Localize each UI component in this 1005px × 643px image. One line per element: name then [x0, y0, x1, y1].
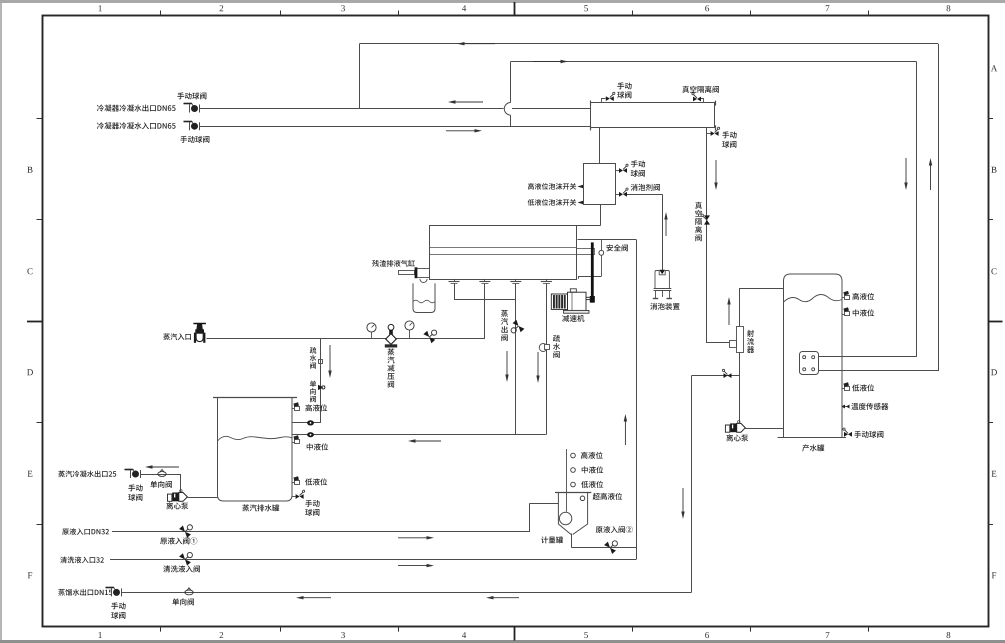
- agitator bearing housing: [577, 249, 595, 255]
- frame column ticks bottom: [160, 627, 162, 632]
- label steam inlet: [163, 333, 191, 340]
- pipe: steam condensate riser x320: [320, 339, 322, 423]
- label manual ball valve outlet: [177, 92, 206, 99]
- check valve on riser x320: [318, 385, 323, 390]
- gearbox motor assembly: [551, 294, 567, 309]
- vessel drain boss: [420, 279, 427, 283]
- flow arrow leg3 down: [506, 351, 508, 375]
- manual ball valve on inlet line: [189, 122, 191, 130]
- pipe: riser to ejector nozzle: [707, 342, 730, 344]
- residue beaker: [413, 283, 435, 312]
- flow arrow distilled left 1: [304, 597, 332, 599]
- label metering tank: [541, 536, 563, 543]
- label check valve condensate: [150, 481, 172, 488]
- flow arrow riser x320 down: [329, 345, 331, 371]
- residue drain cylinder label: [372, 260, 415, 267]
- pipe: raw liquid line: [112, 531, 530, 533]
- pipe: loop2 right riser: [916, 62, 918, 357]
- defoam box riser from condenser: [599, 128, 601, 163]
- defoam box: [584, 164, 616, 205]
- steam trap on leg4: [539, 344, 547, 352]
- pipe: leg3 riser down: [515, 283, 517, 434]
- residue beaker liquid wavy line: [413, 300, 435, 303]
- pipe: mid level long line to legs: [292, 434, 546, 436]
- flow arrow riser x691 down: [682, 488, 684, 512]
- frame numbers bottom: [99, 632, 102, 638]
- metering tank lid: [555, 492, 591, 494]
- flow arrow riser x636 up: [624, 422, 626, 446]
- centrifugal pump left: [168, 494, 172, 501]
- metering overfill circle + label: [580, 496, 585, 501]
- frame letters left: [27, 167, 32, 173]
- frame numbers top: [99, 5, 102, 11]
- label product water tank: [802, 444, 824, 451]
- flow arrow leg4 down: [537, 352, 539, 376]
- label manual ball valve defoam box: [631, 160, 645, 167]
- label manual ball valve condensate (2 lines): [128, 484, 142, 491]
- pipe: ejector bottom to pump: [739, 352, 741, 423]
- label check valve distilled: [172, 598, 194, 605]
- manual ball valve defoam box: [616, 170, 620, 172]
- pipe: condensate inlet line DN65: [200, 126, 591, 128]
- flow arrow mid line left: [416, 440, 442, 442]
- label cleaning liquid inlet 32: [60, 556, 104, 563]
- flow arrow cleaning liquid right: [398, 565, 427, 567]
- pipe: loop1 left riser: [359, 44, 361, 109]
- flow arrow loop1 left: [465, 43, 496, 45]
- label check valve x320 (vertical): [310, 381, 316, 403]
- cleaning liquid inlet valve: [179, 549, 196, 566]
- valve after reducer: [423, 326, 440, 343]
- flow arrow vacuum riser down: [715, 160, 717, 183]
- label safety valve: [606, 244, 627, 251]
- product tank nozzle low level: [842, 388, 845, 390]
- ejector nozzle stub: [730, 341, 737, 348]
- condenser vessel: [591, 103, 715, 128]
- pressure gauge 2: [409, 330, 411, 339]
- pipe: loop1 right riser: [938, 44, 940, 371]
- manual ball valve distilled water: [111, 588, 113, 596]
- label mid level drain tank: [307, 443, 328, 450]
- drain tank nozzle low: [292, 482, 295, 484]
- raw liquid inlet valve 1: [179, 521, 196, 538]
- pipe: metering tank outlet: [571, 534, 573, 548]
- steam inlet globe valve: [193, 323, 206, 325]
- check valve oval distilled: [185, 590, 193, 595]
- pipe: leg4 riser down: [546, 283, 548, 434]
- pipe: trap outlet to drain tank upper: [292, 422, 320, 424]
- label distilled water outlet DN15: [58, 589, 112, 596]
- label high level drain tank: [305, 404, 327, 411]
- label steam trap x320 (vertical): [310, 347, 317, 369]
- pipe: raw liquid riser to metering tank: [529, 503, 531, 531]
- pipe: leg1 down and across: [454, 283, 456, 300]
- agitator shaft: [591, 242, 594, 302]
- pipe: distilled water line: [122, 592, 692, 594]
- evaporator internal jacket lines: [430, 247, 577, 249]
- product tank nozzle mid level: [842, 314, 845, 316]
- pipe: loop2 left riser with crossing hop: [510, 62, 512, 103]
- label defoamer agent valve: [631, 184, 660, 191]
- check valve oval condensate: [158, 472, 166, 477]
- product water tank: [784, 274, 843, 438]
- pipe: condensate outlet line: [141, 474, 180, 476]
- label low level product tank: [852, 384, 874, 391]
- metering tank body funnel: [558, 493, 587, 535]
- pipe: defoam agent line to defoamer device: [627, 194, 662, 196]
- manual ball valve on outlet line: [189, 105, 191, 113]
- check oval upper: [307, 420, 314, 425]
- pipe: vapor loop1 top line: [359, 43, 938, 45]
- temperature sensor probe: [842, 406, 849, 408]
- pipe: distilled water riser x691: [691, 376, 693, 593]
- pipe: condensate outlet line DN65: [200, 108, 504, 110]
- label centrifugal pump left: [166, 502, 188, 509]
- pressure gauge 1: [371, 332, 373, 339]
- safety valve: [601, 240, 603, 251]
- product tank nozzle high level: [842, 297, 845, 299]
- gearbox base plate: [564, 310, 590, 313]
- label gearbox: [562, 315, 584, 322]
- pipe: flange box to inner riser: [818, 356, 917, 358]
- label manual ball valve condenser top: [617, 82, 631, 89]
- ejector body: [737, 327, 744, 353]
- label manual ball valve right of condenser: [722, 131, 736, 138]
- residue drain cylinder: [399, 271, 415, 275]
- manual ball valve on condenser top: [602, 99, 606, 103]
- steam drain tank body: [218, 398, 293, 501]
- vacuum isolation valve on riser: [704, 215, 710, 220]
- label raw liquid inlet DN32: [62, 528, 109, 535]
- label manual ball valve drain tank: [305, 500, 319, 507]
- label steam drain tank: [242, 504, 279, 511]
- product tank liquid wavy line: [784, 295, 843, 303]
- sight glass flange box on product tank: [800, 352, 819, 375]
- drain tank nozzle high: [292, 408, 295, 410]
- label defoamer device: [650, 303, 679, 310]
- product tank base line: [778, 437, 846, 439]
- main riser x636 (feed/safety): [636, 240, 638, 560]
- drain tank nozzle mid: [292, 442, 295, 444]
- label low level foam switch: [528, 199, 577, 206]
- pipe: pump suction branch line: [692, 375, 740, 377]
- manual ball valve product tank drain: [844, 432, 848, 437]
- flow arrow defoamer feed up: [665, 220, 667, 237]
- defoamer agent valve: [616, 194, 620, 196]
- label steam trap leg4 (vertical): [553, 335, 560, 358]
- pipe: left pump to drain tank: [188, 497, 218, 499]
- manual ball valve below condenser: [707, 133, 711, 135]
- manual ball valve condensate outlet: [130, 470, 132, 478]
- pipe: leg2 down to steam line: [484, 283, 486, 339]
- evaporator vessel body: [430, 226, 577, 280]
- metering tank sensor dip tube: [566, 449, 568, 512]
- condenser flange ticks: [590, 101, 592, 106]
- pipe: flange box to outer riser: [818, 370, 938, 372]
- label mid level product tank: [853, 309, 874, 316]
- flow arrow outlet line left: [456, 101, 484, 103]
- steam drain tank lid: [213, 397, 297, 399]
- label vacuum isolation valve top: [682, 86, 719, 93]
- pipe: vapor loop2 top line: [511, 61, 917, 63]
- frame row ticks right: [988, 118, 993, 120]
- metering level circles + labels: [571, 453, 576, 458]
- label vapor outlet valve (vertical): [501, 310, 508, 341]
- pipe: vacuum riser from condenser: [706, 128, 708, 343]
- metering tank ball float: [559, 512, 571, 524]
- pipe: vessel top to defoam box riser: [577, 225, 601, 227]
- raw liquid inlet valve 2: [604, 537, 621, 554]
- label temperature sensor: [851, 403, 888, 410]
- pipe: down to pump left: [180, 474, 182, 493]
- defoamer device: [659, 270, 665, 274]
- label manual ball valve product tank: [854, 431, 883, 438]
- flow arrow raw liquid right: [398, 537, 427, 539]
- label condenser condensate inlet DN65: [97, 122, 176, 129]
- pipe: cleaning liquid line: [110, 559, 636, 561]
- centrifugal pump right: [725, 425, 729, 432]
- pipe: pump discharge to product tank: [745, 428, 783, 430]
- gearbox body: [568, 292, 587, 310]
- flow arrow ejector motive up: [728, 305, 730, 326]
- flow arrow condensate left: [153, 466, 180, 468]
- pipe: ejector top to product tank: [739, 288, 741, 326]
- safety valve discharge loop: [601, 255, 603, 276]
- label raw liquid inlet valve 2: [596, 526, 633, 533]
- label high level product tank: [852, 293, 874, 300]
- vapor outlet valve on leg3: [508, 320, 525, 337]
- label cleaning liquid inlet valve: [163, 565, 200, 572]
- label manual ball valve distilled (2 lines): [111, 602, 125, 609]
- vessel bottom legs: [454, 279, 456, 282]
- label steam condensate outlet 25: [58, 471, 116, 478]
- label manual ball valve inlet: [180, 136, 209, 143]
- flow arrow distilled left 2: [494, 597, 520, 599]
- frame row ticks left: [37, 118, 43, 120]
- steam trap on riser x320: [319, 360, 323, 364]
- label raw liquid inlet valve 1: [160, 537, 197, 544]
- label condenser condensate outlet DN65: [97, 105, 176, 112]
- flow arrow loop2 right: [533, 61, 561, 63]
- label low level drain tank: [305, 478, 327, 485]
- manual ball valve drain tank bottom: [292, 496, 296, 498]
- frame column ticks top: [160, 11, 162, 16]
- check oval mid: [307, 432, 314, 437]
- flow arrow inlet line right: [446, 130, 475, 132]
- vacuum isolation valve on condenser top: [701, 99, 704, 103]
- label centrifugal pump right: [726, 434, 748, 441]
- flow arrow right riser inner down: [905, 158, 907, 183]
- steam drain tank liquid wavy line: [218, 436, 293, 441]
- safety valve line from vessel: [578, 239, 637, 241]
- label vacuum isolation valve riser (vertical): [695, 202, 702, 241]
- ball valve on suction branch: [724, 373, 728, 378]
- label high level foam switch: [528, 183, 576, 190]
- label ejector (vertical): [747, 330, 754, 353]
- label steam pressure reducing valve (vertical): [387, 348, 394, 387]
- steam pressure reducing valve: [388, 324, 394, 330]
- frame letters right: [991, 65, 997, 71]
- pipe: steam inlet line: [207, 338, 485, 340]
- flow arrow right riser outer up: [930, 166, 932, 191]
